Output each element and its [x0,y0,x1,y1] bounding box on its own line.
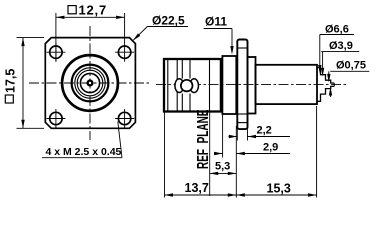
svg-text:Ø3,9: Ø3,9 [329,40,353,52]
svg-text:2,2: 2,2 [257,125,272,137]
svg-text:Ø0,75: Ø0,75 [336,60,366,72]
svg-text:4 x M 2.5 x 0.45: 4 x M 2.5 x 0.45 [46,146,122,158]
svg-text:2,9: 2,9 [263,142,278,154]
svg-text:5,3: 5,3 [215,161,230,173]
svg-text:15,3: 15,3 [267,182,291,196]
svg-text:17,5: 17,5 [3,69,17,93]
svg-text:Ø6,6: Ø6,6 [325,24,349,36]
svg-text:Ø11: Ø11 [205,15,227,29]
svg-text:12,7: 12,7 [79,3,108,18]
svg-text:Ø22,5: Ø22,5 [152,14,185,28]
svg-text:13,7: 13,7 [185,181,209,195]
